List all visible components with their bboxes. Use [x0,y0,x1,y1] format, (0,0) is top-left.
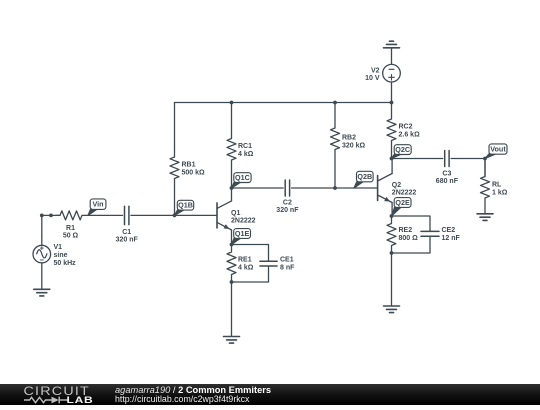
wire CE1 bottom to RE1 bottom [232,266,269,282]
junction dot [49,214,53,218]
junction dot [40,214,44,218]
svg-text:800 Ω: 800 Ω [399,235,419,242]
junction dot (RB2 bottom) [333,186,337,190]
svg-text:Q1C: Q1C [235,173,250,182]
node Vout [485,144,507,159]
svg-text:Q2: Q2 [392,182,401,189]
wire Q2C to C3 [392,158,443,160]
junction dot (RB1 bottom) [173,214,177,218]
svg-text:RC1: RC1 [238,143,252,150]
junction dot (RC1 top) [230,101,234,105]
node Q1B [175,200,194,215]
wire V1 top to R1 [42,215,60,236]
svg-text:C2: C2 [283,200,292,207]
svg-text:RB1: RB1 [182,162,196,169]
ground (RL) [477,214,493,221]
svg-text:8 nF: 8 nF [280,264,295,271]
svg-text:2.6 kΩ: 2.6 kΩ [399,132,421,139]
svg-text:R1: R1 [66,225,75,232]
ground (V2, inverted) [384,41,400,48]
svg-text:Q2B: Q2B [357,172,372,181]
wire CE2 bottom to RE2 bottom [392,236,431,253]
svg-text:LAB: LAB [67,395,94,405]
resistor RC1 [227,103,254,189]
capacitor C3 [436,151,459,186]
voltage source V2 [365,64,400,82]
wire RE1 bottom to ground [231,282,233,336]
junction dot (V2 / RC2) [390,101,394,105]
svg-text:500 kΩ: 500 kΩ [182,170,206,177]
svg-text:10 V: 10 V [365,75,380,82]
CircuitLab logo: resistor-diode underline [24,397,68,404]
junction dot (Q2 emitter node) [390,214,394,218]
wire emitter node to CE1 [232,245,269,262]
svg-text:Q1B: Q1B [178,201,193,210]
node Q1C [232,173,252,188]
svg-text:4 kΩ: 4 kΩ [238,264,254,271]
svg-text:sine: sine [54,252,68,259]
svg-text:Q2E: Q2E [395,198,410,207]
svg-text:CE1: CE1 [280,257,294,264]
capacitor CE1 [260,257,295,272]
junction dot (RE1 bottom) [230,280,234,284]
svg-text:RB2: RB2 [342,135,356,142]
svg-text:Q1: Q1 [231,210,240,217]
ground (Q1 emitter network) [224,337,240,344]
wire C3 to Vout node [451,158,485,160]
svg-text:Vout: Vout [490,145,506,154]
wire C2 to Q2 base [292,187,378,189]
svg-text:C1: C1 [122,229,131,236]
svg-text:V1: V1 [54,244,63,251]
wire C1 to Q1 base [131,214,217,216]
capacitor CE2 [421,227,461,242]
svg-text:RE1: RE1 [238,257,252,264]
wire Q1C to C2 [232,187,284,189]
voltage source V1 [33,236,76,289]
junction dot (Q2 collector node) [390,157,394,161]
CircuitLab logo: LAB [67,395,94,405]
capacitor C1 [116,206,139,243]
svg-text:C3: C3 [442,170,451,177]
svg-text:2N2222: 2N2222 [231,218,256,225]
capacitor C2 [276,180,299,214]
node Q2E [392,198,412,216]
junction dot (Q1 emitter node) [230,243,234,247]
wire R1 to C1 [86,214,123,216]
resistor RL [481,159,508,214]
svg-text:12 nF: 12 nF [442,235,461,242]
wire RE2 bottom to ground [391,253,393,306]
svg-text:680 nF: 680 nF [436,178,459,185]
svg-text:Vin: Vin [93,200,104,209]
junction dot (Q1 collector node) [230,186,234,190]
wire V2 to rail [391,82,393,103]
node Vin [88,199,106,216]
svg-text:50 Ω: 50 Ω [63,233,79,240]
junction dot (RB2 top) [333,101,337,105]
wire Vout to RL [484,159,486,177]
svg-text:RC2: RC2 [399,124,413,131]
svg-text:Q1E: Q1E [235,229,250,238]
ground (Q2 emitter network) [384,306,400,313]
svg-text:http://circuitlab.com/c2wp3f4t: http://circuitlab.com/c2wp3f4t9rkcx [115,394,250,404]
svg-text:V2: V2 [371,68,380,75]
node Q2C [392,145,412,159]
resistor R1 [56,211,86,240]
svg-text:50 kHz: 50 kHz [54,260,77,267]
svg-text:320 kΩ: 320 kΩ [342,143,366,150]
resistor RE1 [227,245,254,283]
transistor Q2 [378,159,417,217]
footer bar [0,384,540,405]
wire top rail [175,102,392,104]
svg-text:320 nF: 320 nF [276,207,299,214]
footer url text [115,394,250,404]
junction dot (Vout node) [483,157,487,161]
svg-text:1 kΩ: 1 kΩ [492,190,508,197]
node Q2B [354,171,373,188]
resistor RB1 [170,103,205,216]
junction dot (RE2 bottom) [390,251,394,255]
wire V2 ground to circle [391,48,393,65]
svg-text:RE2: RE2 [399,227,413,234]
transistor Q1 [217,188,256,245]
svg-text:RL: RL [492,182,502,189]
wire Q2E to CE2 [392,216,431,231]
resistor RB2 [331,103,366,189]
resistor RE2 [387,216,418,253]
resistor RC2 [387,103,420,159]
footer title text [115,385,271,395]
svg-text:2N2222: 2N2222 [392,189,417,196]
CircuitLab logo: CIRCUIT [24,385,91,398]
node Q1E [232,229,251,245]
svg-text:4 kΩ: 4 kΩ [238,151,254,158]
svg-text:CE2: CE2 [442,227,456,234]
svg-text:320 nF: 320 nF [116,237,139,244]
ground (V1) [34,289,50,296]
svg-text:Q2C: Q2C [395,145,410,154]
